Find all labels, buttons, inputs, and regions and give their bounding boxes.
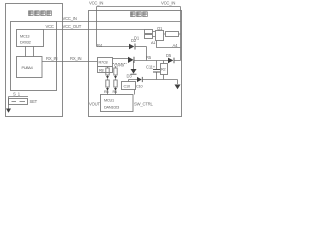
wire RX_IN — [42, 61, 98, 63]
wire VCC_IN top rail — [97, 6, 181, 8]
wire U3 to PU8A4 pin1 — [25, 47, 27, 57]
stack1 arrow a — [106, 76, 109, 79]
svg-text:DX032: DX032 — [20, 41, 31, 45]
RX filter box F1 — [98, 58, 113, 67]
diode D3 bar — [141, 77, 143, 82]
camera module PU8A4 box — [17, 57, 43, 78]
camera board inner box — [11, 22, 57, 91]
wire U3 to PU8A4 pin2 — [33, 47, 35, 57]
capacitor C10 box — [122, 82, 136, 90]
resistor stack1 b — [106, 80, 109, 87]
svg-text:VCC_IN: VCC_IN — [63, 16, 77, 21]
zener D6 bar — [131, 73, 137, 75]
svg-text:MC13: MC13 — [20, 35, 29, 39]
svg-text:A1: A1 — [151, 41, 155, 45]
stack2 arrow a — [114, 76, 117, 79]
wire D4 out rail — [134, 60, 181, 62]
svg-text:VCC_IN: VCC_IN — [161, 1, 175, 6]
svg-text:C9 R9: C9 R9 — [114, 64, 124, 68]
main board box — [89, 11, 182, 117]
stack1 arrow b — [106, 88, 109, 91]
diode D5 bar — [173, 58, 175, 64]
diode D4 — [128, 57, 134, 63]
svg-text:VCC: VCC — [46, 24, 54, 29]
svg-text:C11+: C11+ — [146, 65, 156, 70]
svg-text:RX_IN: RX_IN — [46, 56, 58, 61]
transistor Q1 body — [156, 31, 164, 41]
diode D2 — [129, 44, 134, 50]
title camera board 摄像头板 — [28, 11, 51, 16]
wire relay pins — [153, 32, 166, 37]
wire stack2 — [115, 67, 117, 95]
svg-text:D5: D5 — [166, 53, 172, 58]
stack2 arrow b — [114, 88, 117, 91]
wire C11 branch — [156, 61, 158, 80]
wire C10 top tap — [128, 80, 130, 82]
SET box contacts — [12, 101, 26, 103]
svg-text:C10: C10 — [136, 85, 142, 89]
svg-text:PU8A4: PU8A4 — [22, 66, 33, 70]
wire D4 in — [113, 58, 129, 60]
wire C10 to MCU — [134, 90, 136, 95]
svg-text:SET: SET — [30, 99, 38, 104]
svg-text:VCC_IN: VCC_IN — [89, 1, 103, 6]
wire Q1 emitter rail — [157, 41, 181, 48]
IC U3 MC13 box — [17, 30, 44, 47]
svg-text:VCC_OUT: VCC_OUT — [63, 24, 82, 29]
svg-text:R5: R5 — [146, 55, 152, 60]
svg-text:RX_IN: RX_IN — [70, 56, 82, 61]
svg-text:R5: R5 — [104, 90, 109, 94]
wire D2 out — [136, 46, 147, 48]
title main board 主控板 — [131, 12, 148, 17]
svg-text:S_1: S_1 — [13, 92, 21, 97]
wire VCC_IN camera to main — [57, 21, 181, 23]
svg-text:R7C8: R7C8 — [99, 61, 108, 65]
svg-text:D3: D3 — [127, 74, 133, 79]
svg-text:R2: R2 — [161, 68, 166, 72]
svg-text:SW_CTRL: SW_CTRL — [134, 102, 153, 107]
svg-text:R6: R6 — [113, 90, 118, 94]
wire D2 drop — [146, 47, 148, 61]
ground arrow right — [175, 85, 181, 90]
diode D2 bar — [134, 44, 136, 50]
diode D5 — [168, 58, 173, 64]
wire SET ground — [8, 97, 10, 109]
wire zener drop — [133, 61, 135, 70]
svg-text:R4: R4 — [97, 43, 103, 48]
wire R4 to D2 — [97, 46, 130, 48]
wire relay right to VCC drop — [179, 33, 181, 35]
svg-text:Q1: Q1 — [157, 26, 163, 31]
svg-text:VOUT: VOUT — [89, 102, 100, 107]
wire vertical VCC_IN drop right — [180, 7, 182, 61]
diode D3 — [137, 77, 142, 82]
relay contact a — [145, 30, 153, 34]
ground arrow camera — [6, 109, 11, 113]
wire SET top — [9, 96, 29, 98]
diode D4 bar — [133, 57, 135, 63]
MCU U1 box — [101, 95, 134, 112]
resistor stack2 b — [114, 80, 117, 87]
svg-text:DAN1023: DAN1023 — [104, 106, 119, 110]
resistor R3 — [166, 32, 179, 37]
wire ground stub right — [177, 80, 179, 85]
resistor stack2 a — [114, 68, 117, 75]
camera board outer box — [6, 4, 63, 117]
wire R2 branch — [163, 61, 165, 80]
relay contact b — [145, 35, 153, 39]
resistor stack1 a — [106, 68, 109, 75]
svg-text:D1: D1 — [134, 36, 140, 41]
zener D6 down — [131, 69, 137, 74]
wire ground rail — [129, 79, 178, 81]
RX filter box F2 — [98, 67, 113, 73]
wire dashed tap — [113, 63, 128, 65]
svg-text:MCU1: MCU1 — [104, 99, 114, 103]
resistor R2 body — [161, 64, 168, 75]
svg-text:R8: R8 — [99, 69, 104, 73]
capacitor C11 plates — [153, 70, 160, 73]
wire stack1 — [107, 67, 109, 95]
wire VCC_OUT — [44, 29, 145, 31]
SET switch box — [9, 99, 28, 105]
svg-text:C10: C10 — [124, 85, 130, 89]
wire vertical VCC_IN drop left — [96, 7, 98, 47]
